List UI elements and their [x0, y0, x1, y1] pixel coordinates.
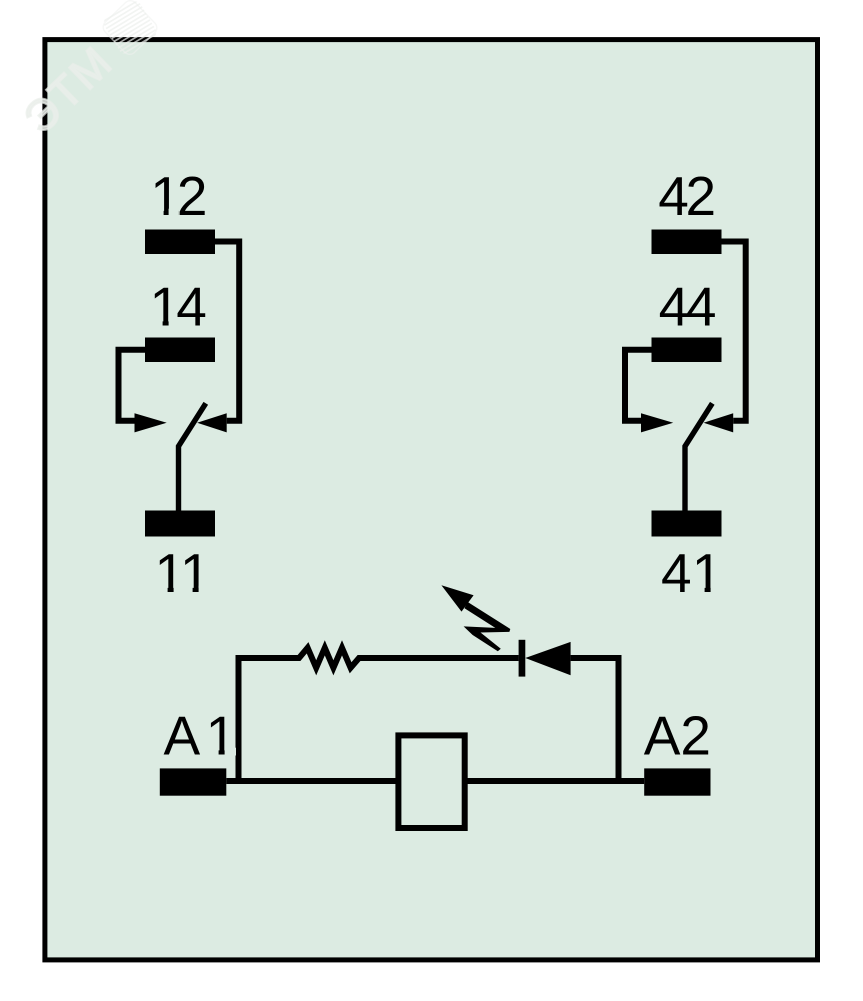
terminal 14: [145, 338, 215, 363]
contact lever: [179, 403, 206, 510]
svg-text:4: 4: [659, 276, 690, 338]
wire 42 to contact: [722, 242, 746, 421]
NC arrow: [704, 413, 734, 432]
wire anode to A2 branch: [571, 658, 619, 781]
svg-text:A: A: [163, 705, 200, 767]
LED triangle: [525, 642, 570, 675]
wire A1-A2 main line: [226, 778, 644, 784]
terminal 41: [652, 511, 722, 537]
terminal 11: [145, 511, 215, 537]
digit-1 foot masks (Arial-style footless 1): [151, 209, 722, 756]
coil circuit: [160, 585, 711, 828]
left contact group: [119, 165, 240, 604]
contact lever: [685, 403, 712, 510]
svg-text:2: 2: [686, 165, 717, 227]
LED flash arrow shaft: [464, 602, 511, 651]
terminal 44: [652, 338, 722, 363]
svg-text:2: 2: [177, 165, 208, 227]
svg-text:A2: A2: [644, 705, 711, 767]
svg-text:4: 4: [658, 165, 689, 227]
svg-text:1: 1: [206, 705, 237, 767]
terminal A2: [644, 768, 710, 795]
svg-text:4: 4: [686, 276, 717, 338]
coil K1: [398, 735, 464, 828]
resistor R1 with wires: [236, 648, 519, 668]
terminal A1: [160, 768, 227, 795]
wire 44 to contact: [625, 350, 652, 421]
LED cathode bar: [519, 640, 526, 677]
wire 12 to contact: [215, 242, 239, 421]
NC arrow: [197, 413, 227, 432]
NO arrow: [135, 413, 167, 432]
LED flash arrowhead: [441, 585, 473, 611]
right contact group: [625, 165, 746, 604]
wire left branch up: [236, 658, 242, 784]
svg-text:1: 1: [692, 542, 723, 604]
svg-text:1: 1: [180, 542, 211, 604]
terminal 42: [652, 230, 722, 255]
svg-text:4: 4: [661, 542, 692, 604]
svg-text:4: 4: [176, 276, 207, 338]
terminal 12: [145, 230, 215, 255]
NO arrow: [641, 413, 673, 432]
wire 14 to contact: [119, 350, 146, 421]
watermark ЭТМ logo mark: [91, 0, 169, 66]
